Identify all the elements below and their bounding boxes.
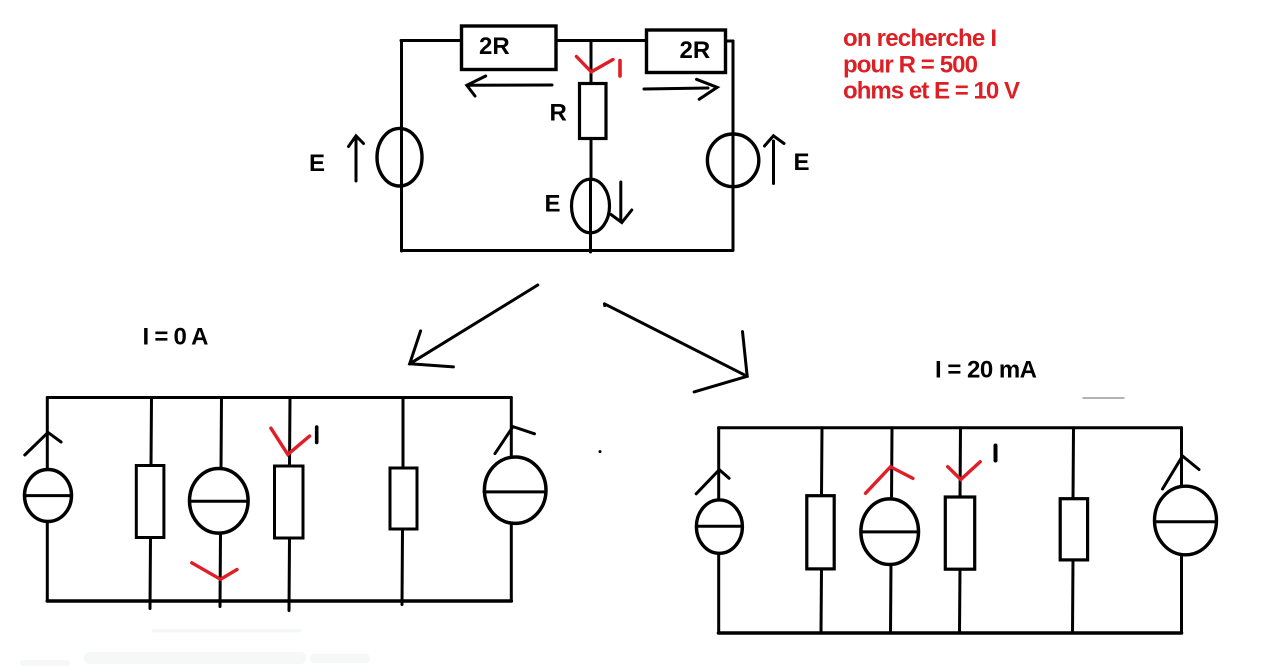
red arrow above branch 3: [866, 467, 913, 494]
wire left edge: [717, 428, 720, 633]
black arrow left (under left 2R): [470, 84, 552, 87]
svg-text:pour R = 500: pour R = 500: [843, 51, 978, 78]
arrow down beside middle source: [619, 182, 622, 221]
svg-text:E: E: [545, 191, 561, 218]
label I branch 4 (black): [315, 427, 319, 442]
red label I: [618, 61, 622, 77]
label I branch 4 (black): [994, 446, 998, 461]
wire through middle source to bottom: [589, 180, 592, 252]
wire top: [719, 426, 1182, 429]
voltage source E middle (ellipse): [572, 179, 610, 233]
arrow up left source: [696, 470, 729, 494]
branch 2 wire: [820, 428, 824, 495]
resistor branch 2: [136, 466, 164, 538]
stray dot: [599, 450, 602, 453]
resistor branch 2: [807, 496, 834, 569]
svg-text:on recherche I: on recherche I: [843, 25, 997, 52]
wire bottom horizontal: [402, 249, 734, 252]
arrow up E right: [772, 141, 775, 184]
svg-text:E: E: [794, 149, 810, 176]
arrow up left source: [25, 432, 61, 455]
branch 4 wire: [959, 428, 963, 500]
red arrow above branch 4: [271, 428, 310, 454]
wire bottom: [47, 599, 511, 603]
faint erased text remnants bottom-left: [20, 629, 370, 666]
branch 3 wire: [220, 398, 224, 470]
arrow to bottom-left circuit: [410, 285, 538, 364]
black arrow right (under right 2R): [644, 88, 708, 89]
wire bottom: [719, 631, 1182, 635]
resistor branch 5: [390, 468, 417, 529]
wire right edge: [510, 398, 513, 602]
resistor 2R (left box): [462, 26, 557, 70]
red arrow above branch 4: [948, 462, 981, 480]
svg-text:I = 0 A: I = 0 A: [143, 323, 209, 350]
wire top-left horizontal: [401, 39, 462, 42]
arrow up E left: [355, 139, 358, 181]
wire top: [47, 396, 511, 399]
red arrow below branch 3: [192, 563, 237, 580]
current source left (ellipse): [696, 500, 742, 553]
current source left (circle): [25, 470, 72, 522]
arrow up right source: [495, 427, 535, 454]
svg-text:2R: 2R: [680, 37, 711, 64]
red current arrow I (top middle): [576, 57, 613, 72]
wire box2 right to corner: [725, 40, 733, 43]
svg-text:E: E: [309, 150, 325, 177]
branch 4 wire: [288, 398, 292, 467]
resistor R: [580, 84, 607, 139]
svg-text:I = 20 mA: I = 20 mA: [935, 357, 1037, 384]
svg-text:2R: 2R: [479, 33, 510, 60]
current source branch 3 (ellipse): [861, 499, 919, 565]
svg-text:ohms et E = 10 V: ohms et E = 10 V: [843, 78, 1020, 105]
current source right (circle): [1155, 486, 1217, 555]
branch 5 wire: [1072, 428, 1076, 501]
resistor branch 4: [275, 466, 304, 538]
wire middle vertical (mid segment): [590, 139, 593, 181]
voltage source E right (circle on right wire): [707, 134, 758, 187]
resistor branch 4: [945, 497, 974, 569]
voltage source E left (ellipse on left wire): [377, 128, 422, 186]
resistor branch 5: [1060, 499, 1087, 560]
node dot (arrow start): [603, 304, 606, 307]
svg-text:R: R: [550, 100, 567, 127]
wire right edge: [1180, 428, 1183, 633]
branch 5 wire: [402, 398, 405, 469]
wire between 2R boxes: [555, 39, 647, 42]
gray dash: [1083, 397, 1124, 399]
current source branch 3 (ellipse): [190, 469, 249, 534]
wire left edge: [46, 398, 49, 602]
wire middle vertical (top segment): [590, 41, 593, 85]
arrow up right source: [1163, 456, 1200, 489]
wire right vertical: [732, 41, 735, 250]
branch 3 wire: [890, 428, 894, 502]
wire left vertical: [400, 41, 403, 252]
current source right (circle): [484, 457, 546, 523]
arrow to bottom-right circuit: [604, 304, 747, 377]
branch 2 wire: [150, 398, 154, 466]
resistor 2R (right box): [647, 30, 726, 73]
